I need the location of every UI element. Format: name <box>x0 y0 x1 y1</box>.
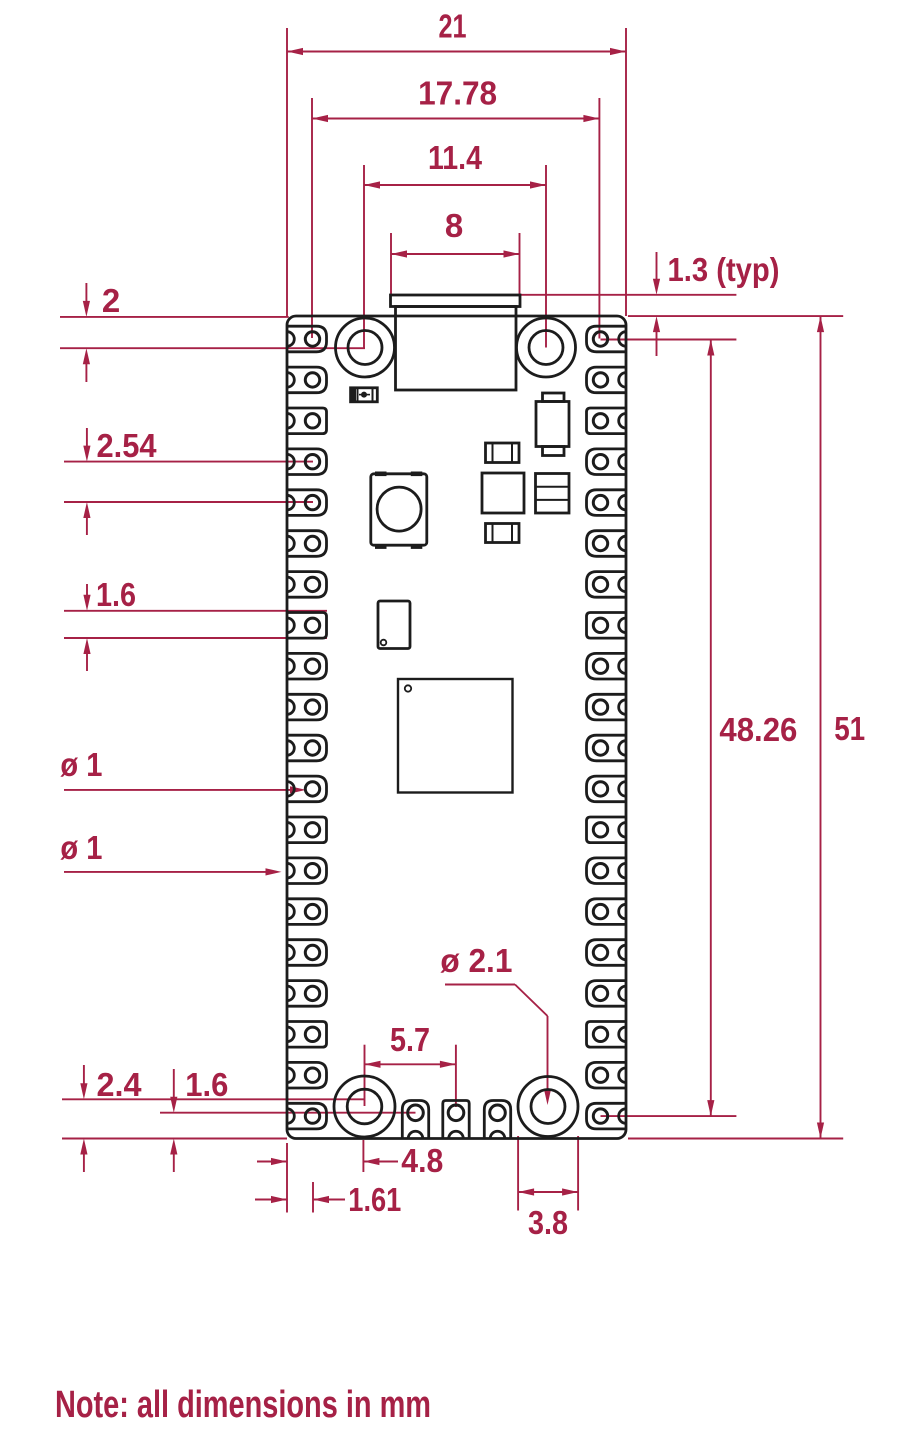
svg-text:4.8: 4.8 <box>401 1142 443 1179</box>
svg-text:2: 2 <box>102 282 120 319</box>
svg-text:11.4: 11.4 <box>428 139 483 176</box>
svg-text:3.8: 3.8 <box>528 1204 568 1241</box>
svg-text:8: 8 <box>445 207 463 244</box>
svg-text:Note: all dimensions in mm: Note: all dimensions in mm <box>55 1384 431 1426</box>
svg-text:2.54: 2.54 <box>97 427 158 464</box>
svg-text:17.78: 17.78 <box>418 74 497 111</box>
svg-text:48.26: 48.26 <box>719 711 797 748</box>
svg-text:1.61: 1.61 <box>348 1181 401 1218</box>
svg-text:1.6: 1.6 <box>96 576 136 613</box>
svg-text:ø 1: ø 1 <box>60 829 102 866</box>
svg-text:1.6: 1.6 <box>185 1066 228 1103</box>
svg-text:ø 1: ø 1 <box>60 746 102 783</box>
svg-text:ø 2.1: ø 2.1 <box>440 942 512 979</box>
svg-text:1.3 (typ): 1.3 (typ) <box>668 251 780 288</box>
svg-text:2.4: 2.4 <box>97 1066 143 1103</box>
svg-text:5.7: 5.7 <box>390 1021 430 1058</box>
svg-text:51: 51 <box>834 710 865 747</box>
svg-text:21: 21 <box>439 8 467 45</box>
